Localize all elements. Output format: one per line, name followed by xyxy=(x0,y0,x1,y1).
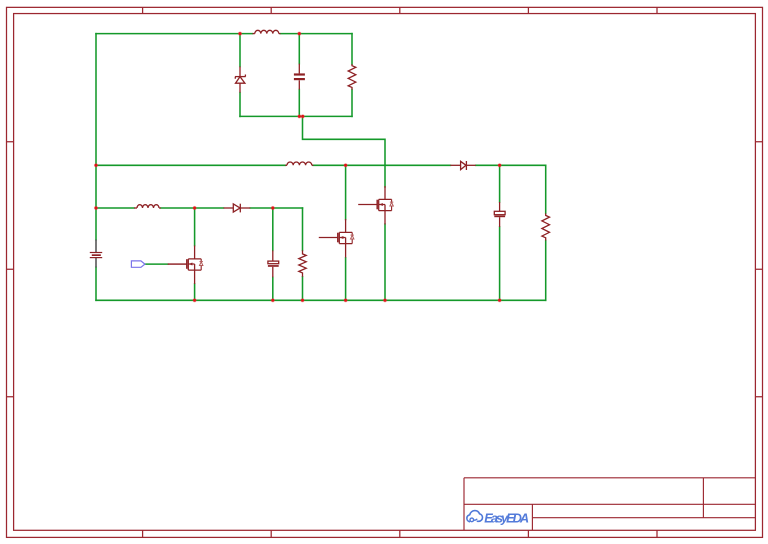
svg-text:EasyEDA: EasyEDA xyxy=(484,510,529,525)
